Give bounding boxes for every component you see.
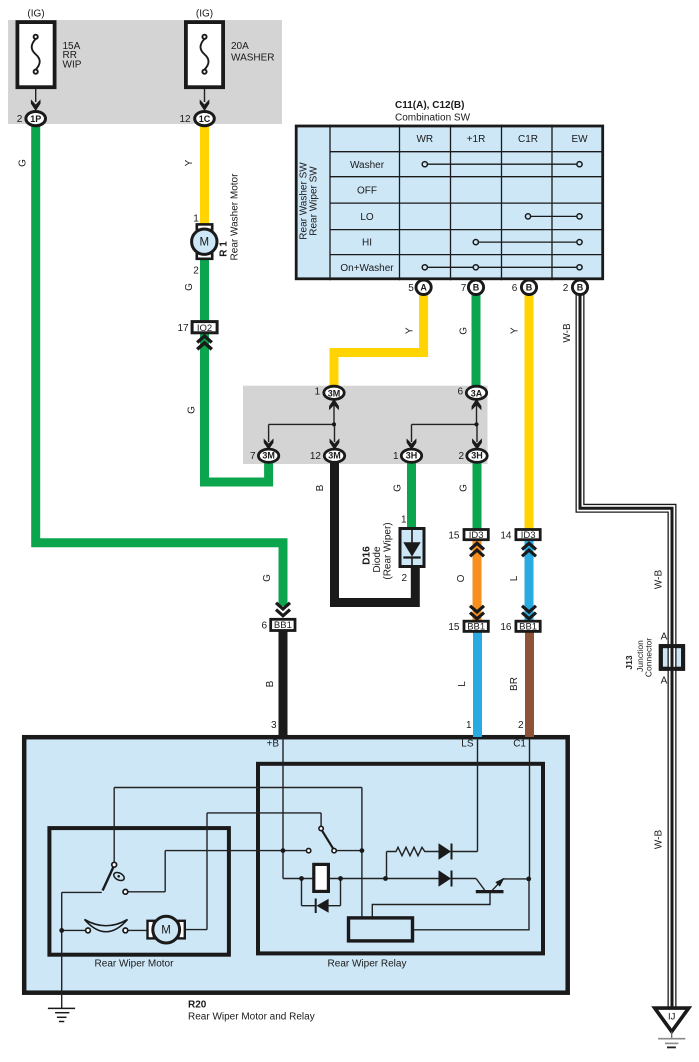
svg-text:20A: 20A bbox=[231, 41, 249, 52]
svg-text:G: G bbox=[18, 159, 29, 167]
svg-text:On+Washer: On+Washer bbox=[340, 263, 394, 274]
svg-text:BB1: BB1 bbox=[274, 620, 292, 631]
svg-text:1: 1 bbox=[466, 720, 472, 731]
svg-text:3M: 3M bbox=[328, 451, 341, 461]
svg-text:OFF: OFF bbox=[357, 186, 377, 197]
svg-text:2: 2 bbox=[518, 720, 524, 731]
svg-text:17: 17 bbox=[177, 323, 189, 334]
svg-text:A: A bbox=[661, 676, 668, 687]
svg-text:IO2: IO2 bbox=[197, 323, 212, 334]
svg-text:3M: 3M bbox=[328, 389, 341, 399]
svg-text:BB1: BB1 bbox=[467, 622, 485, 633]
svg-text:3: 3 bbox=[271, 720, 277, 731]
svg-text:WR: WR bbox=[416, 134, 433, 145]
svg-text:Rear Washer Motor: Rear Washer Motor bbox=[230, 173, 241, 261]
svg-text:WASHER: WASHER bbox=[231, 53, 275, 64]
svg-text:3H: 3H bbox=[406, 451, 418, 461]
svg-text:EW: EW bbox=[571, 134, 588, 145]
svg-text:L: L bbox=[457, 681, 468, 687]
svg-text:M: M bbox=[200, 237, 210, 249]
svg-text:G: G bbox=[187, 406, 198, 414]
svg-text:L: L bbox=[509, 575, 520, 581]
svg-text:Rear Wiper Relay: Rear Wiper Relay bbox=[328, 959, 407, 970]
svg-text:6: 6 bbox=[261, 621, 267, 632]
svg-text:WIP: WIP bbox=[63, 59, 82, 70]
svg-text:Combination SW: Combination SW bbox=[395, 113, 471, 124]
svg-text:7: 7 bbox=[250, 451, 256, 462]
svg-text:G: G bbox=[393, 484, 404, 492]
svg-text:ID3: ID3 bbox=[469, 530, 484, 541]
svg-text:O: O bbox=[456, 574, 467, 582]
svg-text:Rear Wiper Motor and Relay: Rear Wiper Motor and Relay bbox=[188, 1012, 315, 1023]
svg-text:6: 6 bbox=[457, 387, 463, 398]
svg-text:Rear Wiper Motor: Rear Wiper Motor bbox=[95, 959, 175, 970]
svg-text:2: 2 bbox=[563, 283, 569, 294]
svg-text:1: 1 bbox=[193, 214, 199, 225]
svg-text:Connector: Connector bbox=[644, 638, 654, 677]
svg-text:7: 7 bbox=[461, 283, 467, 294]
svg-text:1C: 1C bbox=[199, 114, 211, 124]
svg-text:ID3: ID3 bbox=[521, 530, 536, 541]
svg-text:G: G bbox=[459, 484, 470, 492]
svg-text:B: B bbox=[526, 283, 533, 293]
svg-text:BR: BR bbox=[509, 677, 520, 691]
svg-text:G: G bbox=[459, 327, 470, 335]
svg-text:G: G bbox=[262, 574, 273, 582]
svg-text:+B: +B bbox=[266, 739, 279, 750]
svg-text:3A: 3A bbox=[471, 389, 483, 399]
svg-text:Y: Y bbox=[510, 327, 521, 334]
svg-text:3M: 3M bbox=[262, 451, 275, 461]
svg-text:6: 6 bbox=[512, 283, 518, 294]
svg-text:12: 12 bbox=[179, 114, 191, 125]
svg-text:(IG): (IG) bbox=[27, 9, 44, 20]
svg-text:LS: LS bbox=[461, 739, 474, 750]
svg-text:W-B: W-B bbox=[654, 570, 665, 590]
svg-text:16: 16 bbox=[500, 622, 512, 633]
svg-text:B: B bbox=[577, 283, 584, 293]
svg-text:Y: Y bbox=[405, 327, 416, 334]
svg-text:G: G bbox=[184, 283, 195, 291]
svg-text:1P: 1P bbox=[30, 114, 41, 124]
svg-text:5: 5 bbox=[408, 283, 414, 294]
svg-text:D16: D16 bbox=[362, 546, 373, 565]
svg-text:14: 14 bbox=[500, 530, 512, 541]
svg-text:15: 15 bbox=[448, 530, 460, 541]
svg-text:1: 1 bbox=[401, 515, 407, 526]
svg-text:R20: R20 bbox=[188, 1000, 207, 1011]
svg-text:B: B bbox=[265, 680, 276, 687]
svg-text:3H: 3H bbox=[471, 451, 483, 461]
svg-text:M: M bbox=[161, 925, 171, 937]
svg-text:J13: J13 bbox=[624, 655, 634, 669]
svg-text:B: B bbox=[473, 283, 480, 293]
svg-text:IJ: IJ bbox=[668, 1012, 676, 1023]
svg-text:2: 2 bbox=[401, 573, 407, 584]
svg-text:HI: HI bbox=[362, 238, 372, 249]
svg-text:B: B bbox=[315, 484, 326, 491]
svg-text:2: 2 bbox=[193, 266, 199, 277]
svg-text:Y: Y bbox=[184, 159, 195, 166]
svg-text:R 1: R 1 bbox=[219, 241, 230, 257]
svg-text:12: 12 bbox=[310, 451, 322, 462]
svg-text:A: A bbox=[420, 283, 427, 293]
svg-text:C11(A), C12(B): C11(A), C12(B) bbox=[395, 100, 464, 111]
svg-text:W-B: W-B bbox=[562, 323, 573, 343]
svg-text:C1R: C1R bbox=[518, 134, 538, 145]
svg-text:2: 2 bbox=[458, 451, 464, 462]
svg-text:15: 15 bbox=[448, 622, 460, 633]
svg-text:A: A bbox=[661, 632, 668, 643]
svg-text:Diode: Diode bbox=[372, 546, 383, 573]
svg-text:BB1: BB1 bbox=[519, 622, 537, 633]
svg-text:2: 2 bbox=[17, 114, 23, 125]
svg-text:(Rear Wiper): (Rear Wiper) bbox=[383, 522, 394, 579]
svg-text:W-B: W-B bbox=[654, 830, 665, 850]
svg-text:1: 1 bbox=[314, 387, 320, 398]
svg-text:+1R: +1R bbox=[467, 134, 486, 145]
svg-text:C1: C1 bbox=[513, 739, 526, 750]
svg-text:Rear Wiper SW: Rear Wiper SW bbox=[309, 166, 320, 236]
svg-text:LO: LO bbox=[360, 212, 374, 223]
svg-text:Washer: Washer bbox=[350, 160, 385, 171]
svg-text:(IG): (IG) bbox=[196, 9, 213, 20]
svg-text:1: 1 bbox=[393, 451, 399, 462]
